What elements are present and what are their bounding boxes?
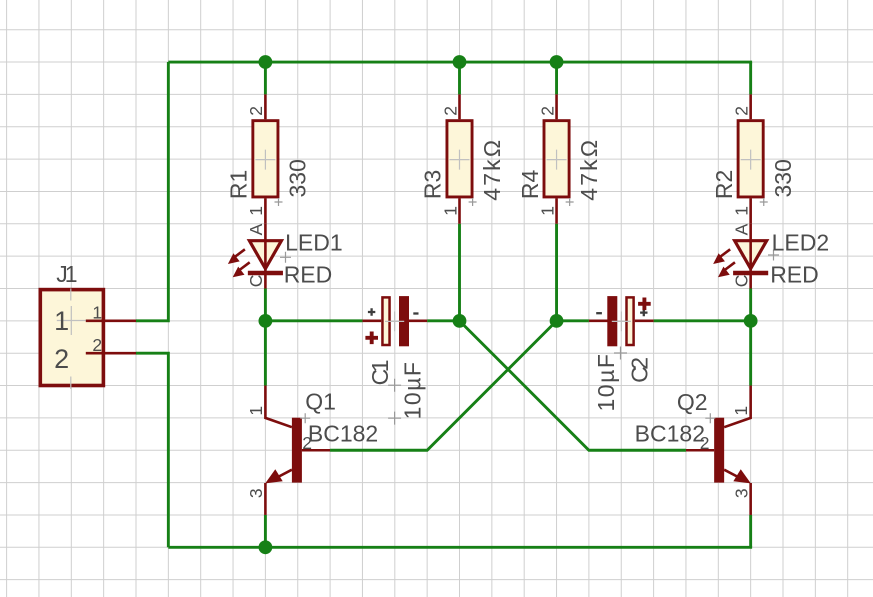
junction top R3 (453, 55, 467, 69)
wire C1 right to node (427, 319, 459, 322)
value 10uF of C1 (400, 361, 426, 420)
junction bottom Q1 emitter (259, 540, 273, 554)
LED LED2 (713, 224, 779, 289)
value 330 of R2 (770, 159, 796, 197)
label R3 (420, 170, 446, 199)
pin name C of LED1 (246, 275, 266, 288)
value RED of LED2 (770, 262, 819, 288)
svg-text:47kΩ: 47kΩ (479, 138, 505, 201)
label LED2 (772, 229, 830, 255)
wire C2 right to LED2 node (654, 319, 751, 322)
svg-text:1: 1 (246, 206, 266, 216)
svg-text:2: 2 (731, 106, 751, 116)
pin number 1 of Q2 (731, 406, 751, 416)
svg-text:1: 1 (537, 206, 557, 216)
value 330 of R1 (285, 159, 311, 197)
transistor Q1 (265, 386, 330, 515)
pin number 2 of Q2 (700, 433, 710, 453)
svg-text:C1: C1 (367, 360, 393, 385)
label J1 (56, 261, 76, 287)
svg-text:10µF: 10µF (593, 353, 619, 412)
svg-text:R4: R4 (517, 169, 543, 199)
pin number 1 of R4 (537, 206, 557, 216)
pin number 2 of R4 (537, 106, 557, 116)
wire R4 top stub (555, 62, 558, 94)
svg-text:2: 2 (246, 106, 266, 116)
svg-text:RED: RED (284, 262, 333, 288)
wire Q1 emitter to bottom rail (264, 515, 267, 547)
pin number 1 of R1 (246, 206, 266, 216)
value RED of LED1 (284, 262, 333, 288)
wire node Q1 collector to C1 left (265, 319, 362, 322)
wire C2 left to node (557, 319, 589, 322)
svg-text:1: 1 (54, 306, 69, 336)
svg-text:3: 3 (731, 488, 751, 498)
pin number 2 of Q1 (302, 433, 312, 453)
resistor R1 (253, 94, 283, 223)
svg-text:3: 3 (246, 488, 266, 498)
svg-text:R1: R1 (226, 170, 252, 199)
label C1 (367, 360, 393, 385)
wire left rail upper (J1 pin1 to top rail) (136, 62, 168, 321)
pin number 3 of Q2 (731, 488, 751, 498)
wire left rail lower (J1 pin2 to bottom rail) (136, 353, 168, 547)
pin number 2 of R3 (440, 106, 460, 116)
svg-text:1: 1 (731, 206, 751, 216)
wire LED1 cathode to Q1 collector (264, 289, 267, 386)
label R4 (517, 169, 543, 199)
svg-text:R2: R2 (711, 170, 737, 199)
pin number 3 of Q1 (246, 488, 266, 498)
value 47kOhm of R3 (479, 138, 505, 201)
junction mid LED2/Q2/C2 (744, 314, 758, 328)
pad name 2 of J1 (54, 344, 69, 374)
resistor R3 (447, 94, 477, 223)
pin number 1 of J1 (92, 303, 102, 323)
wire diagonal C2 node to Q1 base (330, 321, 557, 450)
pin number 2 of R2 (731, 106, 751, 116)
svg-text:J1: J1 (56, 261, 76, 287)
svg-text:10µF: 10µF (400, 361, 426, 420)
svg-text:C2: C2 (627, 358, 653, 383)
junction top R1 (259, 55, 273, 69)
label R2 (711, 170, 737, 199)
wire LED2 cathode to Q2 collector (749, 289, 752, 386)
pin name C of LED2 (731, 275, 751, 288)
pad name 1 of J1 (54, 306, 69, 336)
svg-text:C: C (246, 275, 266, 288)
svg-text:1: 1 (92, 303, 102, 323)
wire R3 top stub (458, 62, 461, 94)
transistor Q2 (686, 386, 751, 515)
wire R1 top stub (264, 62, 267, 94)
pin number 2 of R1 (246, 106, 266, 116)
svg-text:A: A (731, 223, 751, 235)
pin name A of LED2 (731, 223, 751, 235)
svg-text:Q1: Q1 (305, 388, 336, 414)
capacitor C2 (589, 296, 654, 359)
label R1 (226, 170, 252, 199)
pin number 2 of J1 (92, 335, 102, 355)
pin number 1 of R3 (440, 206, 460, 216)
junction mid C2/R4/base (550, 314, 564, 328)
wire R4 bottom to C2 left node (555, 224, 558, 321)
wire top rail VCC (168, 61, 752, 64)
junction mid LED1/Q1/C1 (259, 314, 273, 328)
value 10uF of C2 (593, 353, 619, 412)
junction mid C1/R3/base (453, 314, 467, 328)
svg-text:Q2: Q2 (677, 389, 708, 415)
svg-text:2: 2 (440, 106, 460, 116)
svg-text:1: 1 (246, 406, 266, 416)
svg-text:LED2: LED2 (772, 229, 830, 255)
svg-text:RED: RED (770, 262, 819, 288)
capacitor C1 (362, 296, 427, 425)
connector J1 (40, 289, 136, 390)
junction top R4 (550, 55, 564, 69)
svg-text:A: A (246, 223, 266, 235)
svg-text:2: 2 (54, 344, 69, 374)
svg-text:330: 330 (770, 159, 796, 197)
label LED1 (285, 229, 343, 255)
pin number 1 of Q1 (246, 406, 266, 416)
svg-text:1: 1 (440, 206, 460, 216)
svg-text:1: 1 (731, 406, 751, 416)
value BC182 of Q1 (308, 420, 378, 446)
wire R2 top stub (749, 62, 752, 94)
svg-text:LED1: LED1 (285, 229, 343, 255)
svg-text:330: 330 (285, 159, 311, 197)
svg-text:BC182: BC182 (635, 420, 705, 446)
label Q2 (677, 389, 708, 415)
wire diagonal C1 node to Q2 base (460, 321, 686, 450)
wire R3 bottom to C1 right node (458, 224, 461, 321)
resistor R4 (544, 94, 574, 223)
value BC182 of Q2 (635, 420, 705, 446)
label Q1 (305, 388, 336, 414)
svg-text:2: 2 (92, 335, 102, 355)
pin name A of LED1 (246, 223, 266, 235)
svg-text:R3: R3 (420, 170, 446, 199)
svg-text:47kΩ: 47kΩ (576, 138, 602, 201)
pin number 1 of R2 (731, 206, 751, 216)
wire Q2 emitter to bottom rail (749, 515, 752, 547)
svg-text:2: 2 (537, 106, 557, 116)
svg-text:C: C (731, 275, 751, 288)
svg-text:BC182: BC182 (308, 420, 378, 446)
LED LED1 (228, 224, 291, 289)
value 47kOhm of R4 (576, 138, 602, 201)
label C2 (627, 358, 653, 383)
wire bottom rail GND (168, 546, 752, 549)
resistor R2 (738, 94, 768, 223)
